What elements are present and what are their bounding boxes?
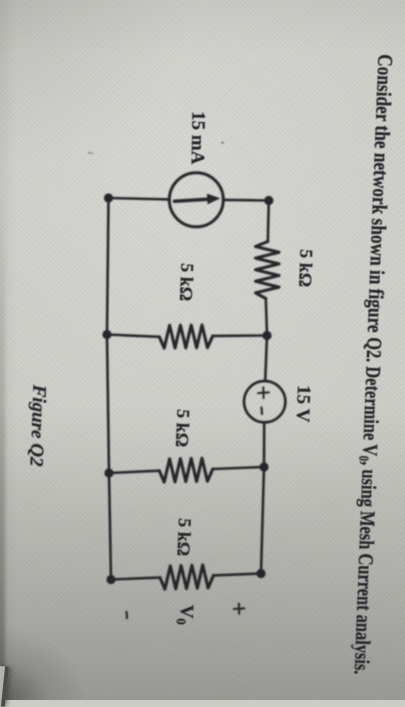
svg-text:15 V: 15 V <box>292 385 314 423</box>
node G <box>106 575 115 584</box>
voltage source minus sign <box>260 408 263 415</box>
wire: resistor R4 to node H <box>214 574 262 576</box>
wire: node C to resistor R2 <box>107 335 159 337</box>
output plus sign (V0) <box>234 604 245 614</box>
wire: node G to resistor R4 <box>111 578 160 580</box>
dust speck <box>221 142 223 144</box>
svg-text:V0: V0 <box>174 604 197 625</box>
svg-text:5 kΩ: 5 kΩ <box>172 409 194 448</box>
node A <box>104 193 113 202</box>
svg-text:5 kΩ: 5 kΩ <box>176 263 198 302</box>
node B <box>264 196 273 205</box>
node C <box>102 330 111 339</box>
wire: voltage source to node F <box>263 422 266 467</box>
voltage source V1 15 V (circle) <box>244 381 285 422</box>
node D <box>262 331 271 340</box>
wire: bottom rail (left vertical in photo) <box>107 198 111 580</box>
current source I1 15 mA (circle) <box>169 173 223 227</box>
resistor R4 5 kOhm (branch 3, output) <box>160 565 214 589</box>
wire: current source to node B <box>223 199 269 202</box>
svg-text:5 kΩ: 5 kΩ <box>173 518 195 557</box>
svg-text:Figure Q2: Figure Q2 <box>25 383 49 467</box>
resistor R3 5 kOhm (branch 2) <box>159 458 213 482</box>
wire: R1 to node D <box>266 299 267 336</box>
node H <box>256 569 265 578</box>
svg-text:5 kΩ: 5 kΩ <box>295 249 316 288</box>
wire: resistor R3 to node F <box>213 467 264 469</box>
resistor R2 5 kOhm (branch 1) <box>159 325 213 348</box>
node E <box>104 468 113 477</box>
wire: node B to resistor R1 <box>268 201 269 242</box>
current source arrow <box>175 199 208 201</box>
svg-text:Q2. Determine V0, using Mesh C: Q2. Determine V0, using Mesh Current ana… <box>348 337 386 675</box>
wire: resistor R2 to node D <box>213 334 267 337</box>
svg-text:Consider the network shown in: Consider the network shown in figure <box>362 54 396 334</box>
resistor R1 5 kOhm (series, top rail) <box>256 242 280 299</box>
node F <box>259 462 268 471</box>
svg-text:15 mA: 15 mA <box>187 111 209 165</box>
wire: node D to voltage source <box>265 336 267 382</box>
wire: top rail lead from node A to current source <box>109 198 170 199</box>
voltage source plus sign <box>258 387 269 398</box>
dust speck <box>89 153 93 154</box>
wire: node F to node H <box>261 467 264 574</box>
output minus sign (V0) <box>125 612 128 618</box>
wire: node E to resistor R3 <box>109 471 159 473</box>
